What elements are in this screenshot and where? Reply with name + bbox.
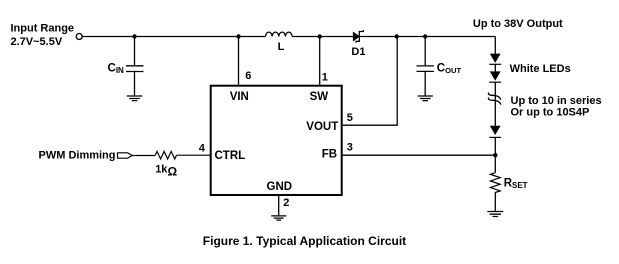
wire COUT drop [424, 37, 426, 66]
wire SW drop [319, 37, 321, 85]
node VOUT junction [395, 34, 399, 38]
ground RSET [487, 212, 503, 217]
wire GND pin [278, 196, 280, 215]
svg-text:2.7V~5.5V: 2.7V~5.5V [11, 36, 63, 48]
resistor R1 1k [155, 151, 176, 159]
svg-text:5: 5 [347, 112, 353, 124]
PWM input terminal [118, 153, 133, 158]
capacitor COUT [417, 66, 434, 72]
ground GND pin [271, 216, 286, 220]
break symbol [488, 93, 500, 105]
svg-text:FB: FB [322, 149, 337, 161]
svg-text:L: L [278, 41, 285, 53]
wire LED3 to FB node [494, 137, 496, 172]
diode D1 [353, 30, 363, 43]
wire PWM to R1 [132, 155, 155, 157]
svg-text:Input Range: Input Range [11, 23, 75, 35]
wire R1 to CTRL [177, 154, 211, 156]
svg-text:Up to 10 in series: Up to 10 in series [511, 95, 602, 107]
wire FB pin [343, 154, 496, 156]
LED D4 [489, 126, 501, 138]
svg-text:SW: SW [310, 91, 329, 103]
capacitor CIN [126, 66, 144, 72]
wire LED2 to break [494, 82, 496, 126]
label Up to 10 in series / Or up to 10S4P [511, 95, 602, 118]
svg-text:CIN: CIN [108, 63, 125, 76]
node CIN junction [132, 34, 136, 38]
svg-text:COUT: COUT [437, 63, 462, 76]
wire LED1 to LED2 [494, 64, 496, 71]
svg-text:VIN: VIN [230, 91, 249, 103]
svg-text:1kΩ: 1kΩ [155, 164, 177, 179]
svg-text:6: 6 [245, 70, 251, 82]
LED D2 [489, 54, 501, 65]
svg-text:Or up to 10S4P: Or up to 10S4P [511, 106, 590, 118]
wire D1 to output [360, 36, 495, 38]
svg-text:3: 3 [347, 142, 353, 154]
svg-text:VOUT: VOUT [306, 121, 338, 133]
wire L to D1 [292, 36, 354, 38]
wire input rail [82, 36, 265, 38]
wire RSET to ground [494, 192, 496, 211]
resistor RSET [490, 173, 500, 193]
IC U1 [211, 86, 342, 195]
wire output down LEDs [494, 37, 496, 54]
svg-text:Figure 1. Typical Application: Figure 1. Typical Application Circuit [203, 234, 406, 248]
node FB junction [493, 153, 497, 157]
ground CIN [127, 96, 142, 101]
LED D3 [489, 71, 501, 82]
wire CIN to ground [134, 72, 136, 96]
svg-text:4: 4 [199, 142, 206, 154]
wire CIN drop [134, 37, 136, 66]
wire VIN drop [238, 37, 240, 85]
input terminal [76, 34, 82, 40]
ground COUT [418, 96, 433, 101]
svg-text:RSET: RSET [504, 178, 528, 191]
svg-text:CTRL: CTRL [215, 150, 246, 162]
svg-text:GND: GND [267, 181, 293, 193]
svg-text:Up to 38V Output: Up to 38V Output [473, 18, 563, 30]
inductor L [266, 32, 293, 36]
svg-text:2: 2 [283, 197, 289, 209]
wire VOUT pin [343, 37, 398, 126]
node VIN junction [236, 34, 240, 38]
node COUT junction [423, 34, 427, 38]
svg-text:PWM Dimming: PWM Dimming [39, 150, 116, 162]
svg-text:D1: D1 [351, 46, 365, 58]
label Input Range 2.7V~5.5V [11, 23, 75, 49]
node SW junction [318, 34, 322, 38]
svg-text:1: 1 [322, 71, 328, 83]
svg-text:White LEDs: White LEDs [510, 63, 571, 75]
wire COUT to ground [424, 71, 426, 95]
